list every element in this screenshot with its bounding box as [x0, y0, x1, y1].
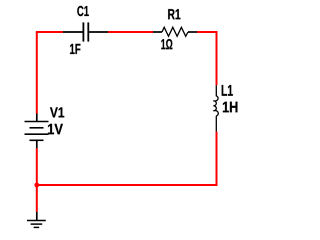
label V1 [50, 107, 64, 117]
battery V1 [25, 114, 49, 149]
wire top-left segment with left rail upper [37, 32, 63, 114]
value label 1V [48, 124, 63, 134]
value label 1Ω [161, 39, 172, 49]
wire left rail mid (battery to junction to ground stub) [36, 148, 38, 212]
label L1 [222, 85, 233, 96]
inductor L1 [213, 85, 218, 131]
capacitor C1 [63, 22, 108, 41]
wire right rail lower and bottom rail [37, 132, 217, 185]
wire top middle segment [108, 31, 153, 33]
wire top-right segment with right rail upper [197, 32, 217, 85]
ground [27, 212, 46, 228]
value label 1H [223, 102, 238, 113]
value label 1F [70, 44, 80, 54]
label C1 [77, 6, 89, 16]
label R1 [168, 9, 180, 19]
junction node [34, 183, 39, 188]
resistor R1 [153, 27, 197, 36]
